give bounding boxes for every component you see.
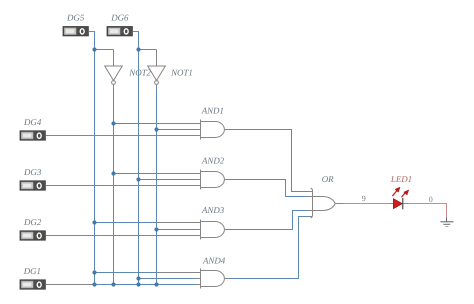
svg-text:9: 9 [362,194,366,203]
svg-text:DG3: DG3 [23,167,42,177]
node AND4.in1 [92,270,96,274]
wire AND3 output to OR pin3 [224,229,229,231]
wire NOT1 output vertical [156,84,158,88]
LED LED1 [392,187,408,209]
node bottom c4 [154,282,158,286]
svg-text:OR: OR [322,174,334,184]
digital input DG3 [20,181,45,190]
wire AND2 input2 [139,179,197,181]
node AND1.in2 [154,127,158,131]
node DG5 branch [92,47,96,51]
wire OR output to LED [335,203,343,205]
wire branch to NOT2 [95,49,114,51]
node AND1.in1 [111,121,115,125]
wire AND3 input1 [95,222,157,224]
and gate AND2 [201,170,225,190]
or gate OR [311,188,336,218]
wire AND4 input1 [95,272,157,274]
svg-text:DG6: DG6 [110,13,129,23]
junction dots [92,47,158,286]
pin stub DG6 [132,31,139,33]
wire AND1 input1 [114,123,157,125]
wire AND4 output to OR pin4 [224,278,229,280]
ground [440,218,453,227]
wire AND2 output to OR pin2 [224,179,229,181]
wire AND3 input3 from DG2 [45,235,200,237]
node AND3.in1 [92,220,96,224]
wire AND4 input2 [139,278,197,280]
wire NOT2 output vertical [113,84,115,88]
wire LED to ground [403,203,409,205]
and gate AND3 [201,220,225,240]
wire AND2 input3 from DG3 [45,185,200,187]
and gate AND1 [201,120,225,140]
inverter NOT2 [105,66,123,84]
svg-text:DG1: DG1 [23,266,41,276]
wire AND1 input2 [157,129,197,131]
node bottom c3 [136,282,140,286]
pin stub DG5 [88,31,95,33]
svg-text:DG5: DG5 [66,13,85,23]
digital input DG6 [107,27,132,36]
wire DG5 vertical [94,32,96,285]
wire AND4 input3 from DG1 [45,284,94,286]
wire AND2 input1 [114,173,157,175]
svg-text:NOT2: NOT2 [128,67,151,77]
node AND4.in2 [136,276,140,280]
svg-text:DG4: DG4 [23,117,42,127]
node bottom c2 [111,282,115,286]
and gate AND4 [201,269,225,289]
inverter NOT1 [148,66,166,84]
wire AND1 output to OR pin1 [224,129,229,131]
digital input DG1 [20,280,45,289]
svg-text:LED1: LED1 [390,174,412,184]
node bottom c1 [92,282,96,286]
svg-text:AND1: AND1 [201,105,224,115]
svg-text:0: 0 [429,195,433,204]
digital input DG4 [20,131,45,140]
node AND3.in2 [154,227,158,231]
wire DG6 vertical [138,32,140,285]
node AND2.in2 [136,177,140,181]
svg-text:DG2: DG2 [23,217,42,227]
node AND2.in1 [111,171,115,175]
svg-text:AND4: AND4 [202,256,226,266]
wire branch to NOT1 [139,49,157,51]
wire AND1 input3 from DG4 [45,135,200,137]
wire AND3 input2 [157,229,197,231]
node DG6 branch [136,47,140,51]
svg-text:AND2: AND2 [201,156,225,166]
digital input DG2 [20,231,45,240]
svg-text:AND3: AND3 [201,205,225,215]
digital input DG5 [63,27,88,36]
svg-text:NOT1: NOT1 [170,67,193,77]
